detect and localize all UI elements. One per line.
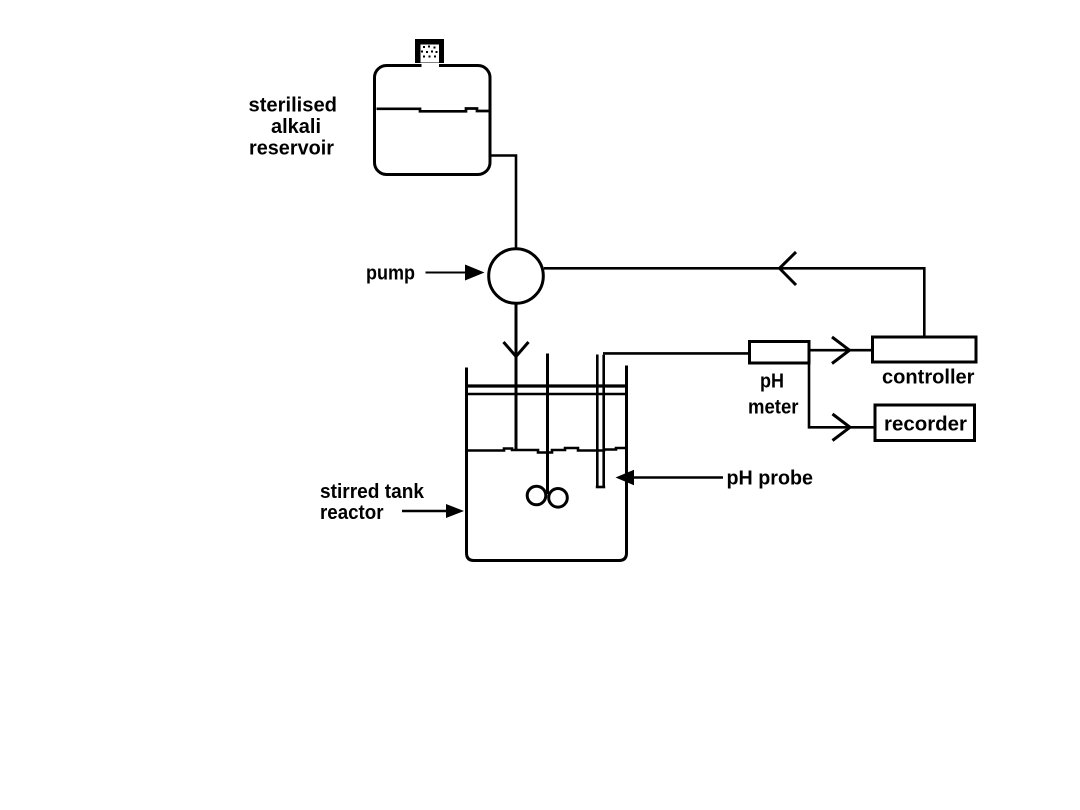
svg-text:recorder: recorder (884, 414, 967, 436)
svg-text:meter: meter (748, 397, 799, 419)
svg-text:pH: pH (760, 371, 784, 393)
svg-text:reactor: reactor (320, 502, 384, 524)
svg-text:reservoir: reservoir (249, 138, 334, 160)
svg-text:pH probe: pH probe (727, 468, 814, 490)
svg-text:controller: controller (882, 367, 975, 389)
svg-text:pump: pump (366, 263, 415, 285)
svg-text:alkali: alkali (271, 116, 321, 138)
svg-text:stirred tank: stirred tank (320, 481, 425, 503)
svg-text:sterilised: sterilised (249, 95, 338, 117)
